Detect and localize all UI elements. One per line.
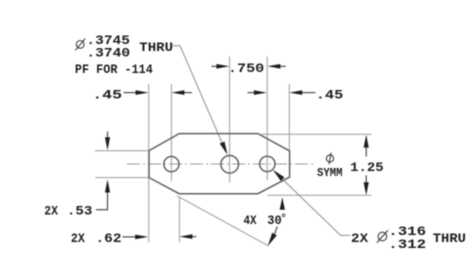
30 deg arrowhead tail [275, 227, 278, 234]
extension line bottom right horizontal (1.25) [268, 194, 372, 196]
hole 2 center [221, 156, 239, 174]
arrowhead right at left edge extension [136, 90, 149, 95]
svg-text:.750: .750 [228, 61, 265, 76]
arrowhead right at hole3 extension (row 2) [254, 90, 267, 95]
leader from small hole to 2X dia note [282, 179, 350, 236]
svg-text:2X: 2X [44, 203, 58, 218]
chamfer angle extension line (30 deg) [177, 196, 269, 246]
part outline octagon [149, 134, 290, 194]
hole 1 left [164, 157, 179, 172]
.53 arrowhead up [105, 180, 110, 193]
extension line right edge vertical [288, 84, 290, 150]
.62 arrowhead left [179, 234, 192, 239]
.62 right tail [192, 236, 196, 238]
svg-text:4X: 4X [243, 213, 256, 228]
extension line left top horizontal [95, 150, 149, 152]
hole2 leader arrowhead [220, 142, 228, 155]
1.25 lower tail [365, 175, 367, 183]
svg-text:THRU: THRU [139, 40, 173, 55]
.45 right tail [302, 92, 315, 94]
arrowhead left at hole3 extension [267, 64, 280, 69]
horizontal centerline through holes [127, 163, 316, 165]
svg-text:PF FOR -114: PF FOR -114 [75, 62, 153, 77]
extension line below bottom-left corner (.62) [179, 198, 181, 242]
svg-text:1.25: 1.25 [350, 160, 384, 175]
extension line hole2 vertical centerline [229, 57, 231, 183]
dimension line .45 left [124, 92, 138, 94]
svg-text:.62: .62 [95, 231, 121, 246]
1.25 dim arrowhead up [364, 135, 369, 148]
arrowhead left at right edge extension [289, 90, 302, 95]
svg-text:.3740: .3740 [86, 46, 130, 61]
hole 3 right [260, 156, 275, 171]
.53 lower tail and leader to text [96, 192, 108, 210]
svg-text:2X: 2X [71, 231, 85, 246]
1.25 upper tail [365, 147, 367, 157]
.750 right tail [280, 65, 285, 67]
.45 right left tail [248, 92, 255, 94]
.750 left tail [212, 65, 218, 67]
svg-text:2X: 2X [351, 231, 368, 246]
diameter symbol top note [75, 39, 85, 51]
.62 arrowhead right [135, 235, 148, 240]
extension line hole1 vertical centerline [170, 84, 172, 181]
arrowhead right at hole2 extension [216, 64, 229, 69]
.62 leader line [123, 236, 137, 238]
tail of hole1 arrowhead [184, 92, 192, 94]
extension line left bottom horizontal [95, 177, 149, 179]
.53 upper tail [107, 132, 109, 139]
30 deg arrowhead up [280, 197, 285, 210]
svg-text:.312: .312 [388, 237, 426, 252]
30 deg arrowhead down-left [268, 233, 277, 247]
svg-text:.45: .45 [92, 87, 122, 102]
svg-text:.53: .53 [67, 203, 93, 218]
svg-text:SYMM: SYMM [317, 167, 343, 180]
leader from THRU note to center hole [173, 46, 223, 144]
extension line left edge vertical [148, 84, 150, 243]
diameter symbol bottom note [377, 230, 388, 243]
degree mark [282, 214, 285, 217]
svg-text:THRU: THRU [433, 231, 466, 246]
svg-text:.45: .45 [316, 88, 344, 103]
svg-text:30: 30 [267, 213, 282, 228]
centerline SYMM symbol [326, 153, 333, 165]
hole3 leader arrowhead [273, 170, 285, 181]
arrowhead left at hole1 extension [171, 90, 184, 95]
.53 arrowhead down [105, 137, 110, 150]
extension line top right horizontal (1.25) [262, 133, 372, 135]
extension line hole3 vertical centerline [266, 57, 268, 181]
1.25 dim arrowhead down [364, 182, 369, 195]
